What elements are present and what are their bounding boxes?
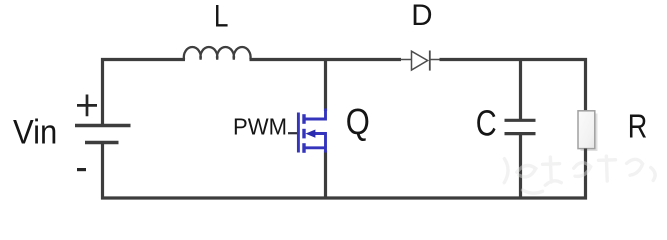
diode D cathode bar xyxy=(429,51,431,71)
diode D cathode lead xyxy=(430,59,440,61)
svg-text:R: R xyxy=(628,109,648,145)
channel segment: drain contact xyxy=(302,114,305,124)
body arrow of Q xyxy=(305,130,315,138)
svg-text:D: D xyxy=(411,0,432,32)
diode D anode lead xyxy=(401,59,412,61)
source lead xyxy=(304,148,326,153)
wire: source branch (MOSFET to bottom rail) xyxy=(324,151,327,199)
minus sign xyxy=(77,168,86,171)
capacitor C top plate xyxy=(505,119,536,122)
gate bar xyxy=(297,113,300,153)
svg-text:L: L xyxy=(214,0,229,34)
capacitor C bottom plate xyxy=(505,132,536,135)
drain lead xyxy=(304,109,326,120)
wire: top rail from inductor to diode xyxy=(250,58,402,61)
wire: bottom-left, battery minus up xyxy=(101,144,104,200)
plus sign xyxy=(77,95,97,117)
svg-text:Vin: Vin xyxy=(13,112,57,151)
capacitor branch top wire xyxy=(519,61,522,119)
transistor Q (N-MOSFET, blue) xyxy=(298,109,325,153)
channel segment: source contact xyxy=(302,143,305,153)
inductor L (4 humps) xyxy=(184,47,251,60)
body lead xyxy=(314,134,326,148)
svg-text:C: C xyxy=(476,102,497,143)
wire: gate lead from PWM xyxy=(288,132,298,134)
battery Vin minus plate (short) xyxy=(85,141,119,144)
svg-text:PWM: PWM xyxy=(233,113,287,140)
channel segment: body contact xyxy=(302,129,305,139)
wire: resistor bottom to bottom-right corner, bottom rail xyxy=(101,149,586,199)
battery Vin plus plate (long) xyxy=(75,124,131,127)
diode D triangle xyxy=(412,51,428,70)
wire: left branch (battery top to top-left corner to inductor) xyxy=(103,60,186,125)
svg-text:Q: Q xyxy=(346,103,370,143)
watermark (faint) xyxy=(503,153,655,194)
wire: drain branch (top rail to MOSFET) xyxy=(324,61,327,111)
capacitor branch bottom wire xyxy=(519,135,522,199)
wire: top rail from diode to top-right corner xyxy=(440,60,586,113)
